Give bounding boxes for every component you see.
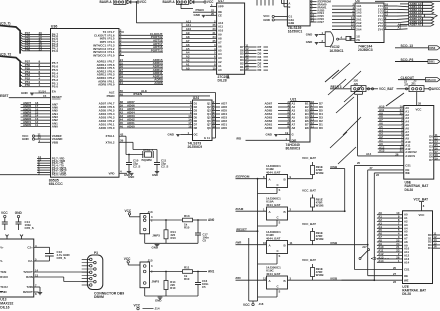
svg-text:XTAL1: XTAL1 [106,134,115,138]
latch U19C set pin wire [258,289,281,297]
RAM2 data pins right [428,232,440,251]
svg-text:GND: GND [152,173,158,177]
latch OC pin with ground [168,131,211,140]
svg-text:U36: U36 [51,24,58,28]
decoder U5 74LS139 body [287,0,310,33]
svg-text:14: 14 [35,269,39,273]
svg-text:Q3: Q3 [207,109,211,113]
svg-text:D1: D1 [194,102,198,106]
wire stubs at top edge [257,0,273,6]
MAX232 left inside labels [0,245,8,294]
MCU analog input pins AN7-AN0 [21,101,59,129]
RAM1 CS2 pin label [366,152,415,158]
RAM1 CS1 wire from vertical bus [355,161,412,168]
pull-up resistor for U19A [302,189,323,212]
MCU VPD pin with ground [109,170,135,179]
ground under C10 [124,172,131,178]
svg-text:B: B [284,210,286,214]
svg-text:D7: D7 [194,123,198,127]
RESET net wire to MCU [0,94,62,99]
svg-text:AN0: AN0 [52,125,58,129]
svg-text:10: 10 [263,241,267,245]
svg-text:D5: D5 [194,116,198,120]
svg-text:P3.0 / RXD: P3.0 / RXD [52,173,67,177]
latch U19A input wire /RAM [236,207,267,211]
svg-text:ADR8 / P5.0: ADR8 / P5.0 [98,83,115,87]
svg-text:ESET: ESET [0,94,9,98]
svg-text:VCC: VCC [1,211,8,215]
svg-text:31: 31 [120,81,124,85]
svg-text:AN0: AN0 [208,218,215,222]
svg-text:28: 28 [418,102,421,106]
U21 output wires to data bus D0-D7 [310,100,323,130]
solder jumper BAUR.A with diode to VCC (left) [100,0,148,4]
svg-text:Q8: Q8 [207,126,211,130]
svg-text:VCC: VCC [134,303,141,307]
resistor R63 3R battery feed [330,85,351,89]
resistor R14 to ground [152,272,176,297]
address flag wedges AD0-AD7 [400,2,437,27]
wire XTAL1 to crystal [126,136,144,154]
svg-text:Q5: Q5 [207,116,211,120]
svg-text:68LCCC: 68LCCC [49,182,63,186]
svg-text:19: 19 [285,131,289,135]
svg-text:27: 27 [393,272,397,276]
svg-text:W10B: W10B [316,237,324,241]
svg-text:C5: C5 [203,238,207,242]
svg-text:R13: R13 [184,214,190,218]
EPROM data output wires O0-O7 [240,44,257,73]
buffer outputs A0 A1 labels [397,22,408,29]
svg-text:WE: WE [404,278,409,282]
net label /USB wire going down [330,165,345,211]
MAX232 T2OUT wire to DB9 [23,269,88,275]
svg-text:20J50IC9: 20J50IC9 [188,145,203,149]
svg-text:16: 16 [433,245,437,249]
gate input 1 with ground [306,31,325,36]
svg-text:D0: D0 [258,68,262,72]
svg-text:/WR: /WR [236,241,243,245]
svg-text:/RESET: /RESET [236,227,247,231]
svg-text:VPP: VPP [218,5,224,9]
svg-text:11: 11 [35,123,38,127]
ALE wire from MCU to latch enable [109,89,216,138]
svg-text:4044_BAT: 4044_BAT [266,272,281,276]
decoder VCC enable pin [263,14,292,18]
svg-text:13: 13 [35,274,39,278]
svg-text:CE: CE [218,13,222,17]
decoder select input wires [282,0,291,9]
svg-text:A8: A8 [292,126,296,130]
svg-text:20J80IC3: 20J80IC3 [358,48,373,52]
svg-text:12: 12 [263,277,267,281]
U21 direction pin wire /RD [236,137,296,143]
svg-text:VCC_BAT: VCC_BAT [302,156,316,160]
svg-text:OE: OE [404,274,408,278]
MAX232 R2OUT pin [23,290,39,296]
capacitor C11 [154,155,168,172]
buffer enable pins 1G 2G [350,34,360,42]
J13 output wire with junctions [150,218,215,222]
svg-text:GND: GND [152,246,158,250]
svg-text:B: B [284,244,286,248]
svg-text:AD60: AD60 [265,126,273,130]
svg-text:J21: J21 [404,83,409,87]
svg-text:39: 39 [120,139,124,143]
RAM1 address input wires [378,105,417,155]
svg-text:D0: D0 [319,126,323,130]
ground under C11 [152,172,159,178]
svg-text:27: 27 [370,166,374,170]
svg-text:Q4: Q4 [207,112,211,116]
svg-text:ADR8: ADR8 [154,81,163,85]
svg-text:A13: A13 [379,149,385,153]
latch U19C input wire /RD [236,276,267,280]
bus ribbon (C0..7) lower [0,52,20,87]
svg-text:P50: P50 [25,83,31,87]
svg-text:10: 10 [212,66,216,70]
svg-text:DB.CO: DB.CO [426,78,436,82]
svg-text:A0: A0 [186,66,190,70]
connector label [94,292,124,299]
svg-text:OC: OC [194,133,198,137]
svg-text:/RD: /RD [236,137,242,141]
EPROM VPP pin [210,3,224,9]
svg-text:A14: A14 [378,259,384,263]
svg-text:R10: R10 [184,277,190,281]
svg-text:JMP3: JMP3 [152,234,160,238]
svg-text:R1IN: R1IN [0,290,6,294]
svg-text:U24: U24 [193,96,199,100]
DB9 pin circles [90,258,97,286]
MCU port3 pins P3.7-P3.0 [37,155,67,177]
RAM1 VCC pin from battery [416,102,422,112]
svg-text:P5.0: P5.0 [52,85,59,89]
vertical bus OE between RAMs [367,170,408,278]
svg-text:V-: V- [0,259,3,263]
latch U19D input wire /WR [236,241,267,245]
svg-text:S: S [279,254,281,258]
jumper J17 switch [359,245,390,260]
svg-text:C2-: C2- [28,259,33,263]
address bus vertical tie [181,23,183,70]
svg-text:CP2_S: CP2_S [57,256,66,260]
svg-text:/RD: /RD [236,276,242,280]
wire U19D output to OE vertical [313,244,368,246]
svg-text:Q6: Q6 [207,119,211,123]
svg-text:46: 46 [120,125,124,129]
net flag SCO..13 [395,44,440,50]
capacitor C13 [45,247,70,261]
svg-text:16J50IC1: 16J50IC1 [330,49,344,53]
svg-text:20: 20 [393,266,397,270]
svg-text:V+: V+ [0,245,4,249]
svg-text:CS1: CS1 [405,164,411,168]
svg-text:B: B [284,279,286,283]
svg-text:O0: O0 [240,68,244,72]
capacitor C10 [126,154,140,172]
svg-text:GND: GND [194,13,200,17]
wire jumper to EPROM A12 row [136,1,138,23]
svg-text:DB3: DB3 [429,46,435,50]
svg-text:D8: D8 [194,126,198,130]
svg-text:BAUR.A: BAUR.A [163,0,176,4]
J15 output wire with junctions [150,270,215,274]
svg-text:ANR0: ANR0 [23,123,32,127]
svg-text:J17: J17 [362,245,367,249]
RAM2 WE wire from latch U19C [330,173,409,284]
svg-text:R10: R10 [170,286,176,290]
svg-text:26: 26 [395,152,399,156]
pull-up resistor for U19D [302,222,323,245]
svg-text:VCC: VCC [125,209,132,213]
gate input 2 with ground [306,39,325,44]
tick at left bottom edge [0,291,3,293]
svg-text:D7: D7 [429,158,433,162]
svg-text:/CS7: /CS7 [317,20,324,24]
svg-text:DIL28: DIL28 [405,188,414,192]
svg-text:T2IN: T2IN [26,285,32,289]
svg-text:DB9M: DB9M [94,295,104,299]
latch U19A set pin wire [258,220,281,226]
VCC jumper J18 at bottom [243,301,264,307]
svg-text:J18: J18 [259,302,264,306]
svg-text:16J50IC1: 16J50IC1 [288,29,303,33]
wire top right corner [375,0,440,2]
svg-text:C2_S: C2_S [161,165,168,169]
svg-text:18: 18 [188,125,192,129]
svg-text:VCC: VCC [243,303,250,307]
svg-text:2G: 2G [356,38,360,42]
svg-text:Q2: Q2 [207,105,211,109]
EPROM U17 27C256 body [217,0,245,82]
J13 ground rail [145,234,198,250]
MCU left pins P5.7-P5.0 with wires [20,60,58,89]
gate output wire with jumper pad [339,35,355,40]
gate U30 74HC32 spare [325,32,344,53]
svg-text:/PSEN: /PSEN [133,92,142,96]
ground to EPROM CE [194,12,223,17]
svg-text:GND: GND [22,137,30,141]
latch U1 74LS373 body [188,96,213,149]
MCU GND pin [21,89,57,95]
MCU left pins P4.7-P4.0 with wires [20,31,58,53]
latch U19C output wire [288,277,313,281]
capacitor C17 filter [195,220,209,243]
svg-text:PSEN: PSEN [107,94,115,98]
svg-text:2Y4: 2Y4 [378,27,383,31]
svg-text:CS1: CS1 [404,268,410,272]
svg-text:DIL16: DIL16 [0,306,9,310]
crystal Q1 QUARZ [142,148,154,162]
svg-text:33: 33 [39,47,43,51]
bus ribbon (C0..7) upper [0,22,20,54]
svg-text:A0: A0 [218,68,222,72]
MCU right pins P1.7-P1.0 with net labels [93,29,163,58]
svg-text:4044_BAT: 4044_BAT [266,203,281,207]
svg-text:G: G [292,133,294,137]
EPROM ground stub at bottom [227,74,230,78]
RAM U7 RAMTRAK_BAT body [402,211,432,296]
svg-text:CP2_S: CP2_S [25,226,34,230]
latch output wires to address labels [194,100,228,130]
svg-text:T1IN: T1IN [0,270,6,274]
svg-text:AD60: AD60 [127,124,135,128]
RAM1 WE wire [374,171,410,177]
svg-text:RESET: RESET [52,95,62,99]
svg-text:19: 19 [213,125,217,129]
resistor R12 to ground [152,220,176,243]
PSEN net wire to EPROM OE [193,8,222,14]
svg-text:/RAM: /RAM [236,207,244,211]
svg-text:DIR: DIR [292,138,297,142]
jumper header J15 with VCC [124,257,153,288]
wire to VCC_BAT node [366,87,409,91]
wire VCC_BAT down to RAM supply [416,92,418,106]
svg-text:A14: A14 [366,152,372,156]
wire jumper2 down to PSEN row [180,4,193,9]
svg-text:12: 12 [311,19,315,23]
svg-text:22: 22 [376,173,380,177]
bus driver U21 74HC640 body [286,98,311,151]
connector P3 DB9 outline [87,251,102,289]
svg-text:GND: GND [155,299,161,303]
svg-text:GND: GND [263,18,271,22]
svg-text:AN1: AN1 [208,270,215,274]
MAX232 C2+ pin wire [27,244,49,250]
svg-text:/EEPROM: /EEPROM [236,175,250,179]
svg-text:GND: GND [15,211,23,215]
latch U19B input wire /EEPROM [236,175,267,179]
svg-text:WE: WE [405,171,410,175]
svg-text:D6: D6 [194,119,198,123]
U21 enable pin with ground [266,131,294,137]
svg-text:JMP3: JMP3 [152,280,160,284]
microcontroller U36 80535 body [49,24,119,186]
svg-text:C2+: C2+ [27,245,33,249]
MCU XTAL pins [106,133,134,145]
J15 ground rail [145,288,198,303]
decoder output wires Y0-Y7 with net labels [310,0,331,24]
RESET net wire to latch bus [236,227,258,232]
svg-text:GND: GND [168,132,174,136]
latch U19D set pin wire [258,254,281,265]
svg-text:VCC: VCC [140,0,147,4]
svg-text:VPD: VPD [109,171,115,175]
svg-text:W10B: W10B [316,273,324,277]
svg-text:D2: D2 [194,105,198,109]
svg-text:INT3/CC0 / P1.0: INT3/CC0 / P1.0 [93,53,115,57]
latch U19C 4044_BAT body [266,265,288,289]
svg-text:A1: A1 [398,25,402,29]
RXD wire to left edge [0,174,37,176]
capacitor C16 filter [195,272,209,297]
svg-text:R2IN: R2IN [26,275,33,279]
MAX232 charge pump pins top [6,235,24,240]
solder jumper J20 [351,79,366,95]
latch U19B set pin wire [258,188,281,194]
svg-text:W10B: W10B [316,204,324,208]
svg-text:VCC_BAT: VCC_BAT [302,222,316,226]
buffer input wires 1A1-2A4 [332,3,362,32]
svg-text:R11: R11 [184,265,190,269]
svg-text:B: B [288,5,290,9]
svg-text:R10: R10 [184,225,190,229]
PSEN wire from MCU [107,92,210,98]
DB9 pin stubs [82,259,94,285]
svg-text:19: 19 [435,156,439,160]
data bus labels D7-D0 [258,45,269,72]
latch set/reset vertical bus [249,178,259,301]
net flag SCO..P3 [395,58,440,64]
svg-text:49: 49 [120,92,124,96]
svg-text:XTAL.1: XTAL.1 [143,148,153,152]
MCU right pins ADR15-ADR8 address lines [97,58,163,87]
svg-text:VCC: VCC [419,213,425,217]
svg-text:VCC_BAT: VCC_BAT [302,189,316,193]
pull-up resistor for U19C [302,258,323,280]
svg-text:15: 15 [43,94,47,98]
resistor R11 [183,265,193,281]
svg-text:11: 11 [290,241,293,245]
svg-text:P4.0: P4.0 [52,49,59,53]
svg-text:PSEN: PSEN [196,8,204,12]
VCC_BAT flag for RAM2 [414,197,429,210]
net flag CLKOUT [398,76,440,82]
pull-up resistor for U19B [302,156,323,179]
svg-text:19: 19 [245,67,249,71]
svg-text:P40: P40 [25,47,31,51]
svg-text:C2_S: C2_S [133,165,140,169]
svg-text:2A4: 2A4 [356,27,362,31]
MAX232 U13 body [0,239,34,310]
svg-text:Q1: Q1 [207,102,211,106]
svg-text:4044_BAT: 4044_BAT [266,170,281,174]
wire to AVCC [404,80,440,91]
svg-text:G: G [204,136,206,140]
svg-text:B8: B8 [305,126,309,130]
jumper header J13 with VCC [125,209,154,234]
svg-text:D4: D4 [428,246,432,250]
MAX232 T2IN pin grounded [26,284,42,295]
latch U19B output wire [288,175,313,179]
RAM1 OE wire [368,166,410,172]
decoder GND pin [263,18,294,25]
svg-text:22: 22 [393,280,397,284]
svg-text:A14/CS: A14/CS [405,154,415,158]
svg-text:42: 42 [120,133,124,137]
svg-text:U3: U3 [355,0,359,3]
svg-text:DB1: DB1 [429,60,435,64]
svg-text:AD0: AD0 [221,126,227,130]
MCU port0 AD7-AD0 bus wires to latch [99,100,193,130]
svg-text:VCC_BAT: VCC_BAT [414,197,429,201]
svg-text:T1OU: T1OU [0,285,7,289]
resistor R13 [183,214,193,230]
GND flag with capacitor C15 [15,211,34,230]
svg-text:D4: D4 [194,112,198,116]
svg-text:20: 20 [357,161,361,165]
wire battery jumper down to RAM1 CS2 [358,95,404,156]
latch U19D 4044_BAT body [266,230,288,254]
svg-text:Q7: Q7 [207,123,211,127]
svg-text:GND: GND [306,40,312,44]
svg-text:20: 20 [211,12,215,16]
svg-text:AD87 A7: AD87 A7 [410,23,422,27]
latch U19A 4044_BAT body [266,196,288,220]
RAM1 data pins right [429,133,440,162]
svg-text:W10B: W10B [316,171,324,175]
